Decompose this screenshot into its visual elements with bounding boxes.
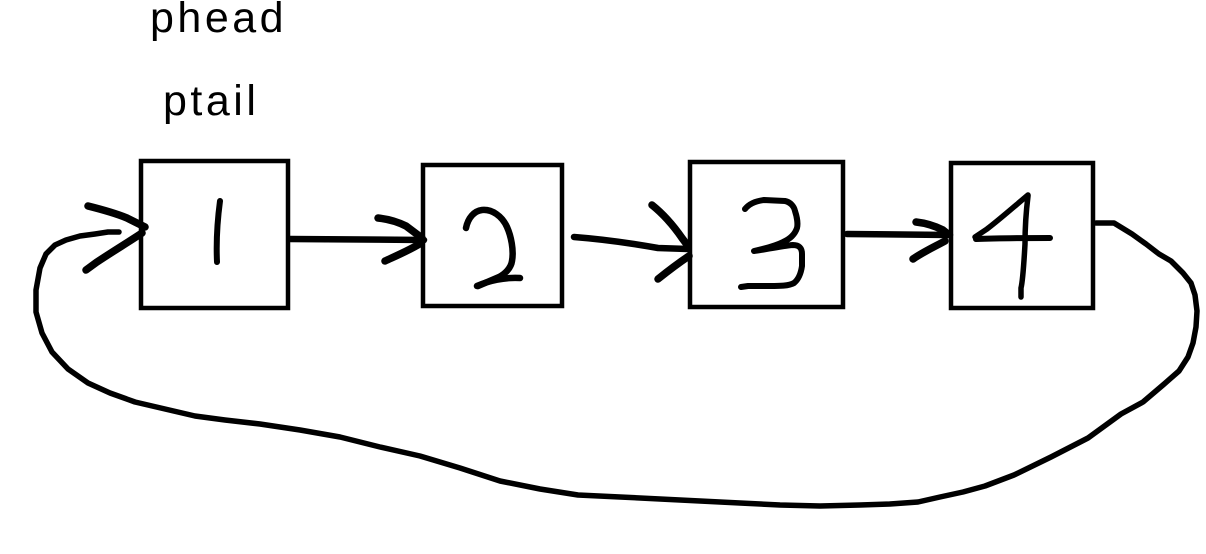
value digit 2 bbox=[466, 210, 513, 286]
wire arrow 2 to 3 shaft bbox=[574, 237, 688, 249]
arrowhead 3 to 4 bbox=[916, 222, 948, 234]
wire arrow 1 to 2 shaft bbox=[290, 239, 424, 240]
value digit 3 bbox=[741, 200, 802, 287]
value digit 4 bbox=[975, 195, 1028, 237]
node box 3 bbox=[690, 162, 843, 307]
value digit 1 bbox=[217, 201, 220, 262]
arrowhead 1 to 2 bbox=[378, 218, 422, 238]
node box 4 bbox=[951, 163, 1093, 308]
arrowhead loop to 1 bbox=[88, 206, 145, 227]
wire circular loop 4 back to 1 bbox=[36, 223, 1197, 506]
wire arrow 3 to 4 shaft bbox=[847, 234, 950, 235]
svg-text:phead: phead bbox=[150, 0, 287, 42]
arrowhead 2 to 3 bbox=[652, 205, 688, 246]
svg-text:ptail: ptail bbox=[163, 77, 259, 125]
node box 2 bbox=[423, 165, 562, 306]
node box 1 bbox=[141, 161, 288, 308]
